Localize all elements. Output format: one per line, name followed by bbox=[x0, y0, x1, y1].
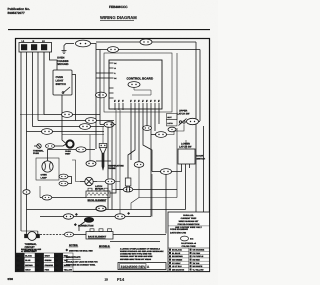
wire K1 K2 right bbox=[68, 177, 72, 184]
svg-text:PARALLEL: PARALLEL bbox=[183, 214, 194, 217]
wire run J8 bbox=[33, 126, 105, 128]
color code table left bbox=[16, 253, 74, 272]
label resistance note bbox=[21, 248, 42, 253]
svg-text:PK PINK: PK PINK bbox=[193, 252, 201, 255]
svg-text:A LISTING OF REPLACEMENT OF TE: A LISTING OF REPLACEMENT OF TERMINALS bbox=[120, 247, 161, 250]
wire lower cross bbox=[139, 197, 177, 199]
title WIRING DIAGRAM bbox=[100, 15, 137, 20]
wire right riser R1 bbox=[195, 42, 197, 212]
connector oval M1 bbox=[64, 214, 74, 219]
wire into pin P3 bbox=[96, 72, 109, 74]
wire J9 run bbox=[100, 124, 116, 126]
svg-text:BROIL ELEMENT: BROIL ELEMENT bbox=[88, 199, 107, 202]
svg-text:WIRE DIAGRAM SET: WIRE DIAGRAM SET bbox=[179, 220, 200, 223]
wire K4 left link bbox=[112, 189, 123, 191]
model number text bbox=[109, 5, 128, 9]
wire latch motor right bbox=[97, 181, 105, 183]
svg-text:5995372077: 5995372077 bbox=[8, 11, 25, 15]
svg-text:IMPORTANT:: IMPORTANT: bbox=[66, 256, 81, 259]
connector oval J9 bbox=[104, 122, 114, 128]
label upper latch switch bbox=[177, 110, 190, 116]
connector oval C1 bbox=[86, 161, 96, 167]
svg-text:DENOTES ON MOD. REF.: DENOTES ON MOD. REF. bbox=[69, 250, 93, 253]
wire motor oval right bbox=[115, 181, 120, 183]
wire block to light switch bbox=[50, 52, 58, 70]
svg-text:THERMAL: THERMAL bbox=[33, 150, 44, 153]
thermal circuit breaker CB1 bbox=[21, 231, 40, 240]
oven light switch S1 bbox=[53, 70, 72, 95]
svg-text:DATE 5/98 CHG: DATE 5/98 CHG bbox=[170, 232, 186, 235]
wire pin1 down bbox=[130, 110, 132, 160]
label temperature probe bbox=[108, 165, 124, 171]
svg-text:WHERE STANDARD AND REPLACED NE: WHERE STANDARD AND REPLACED NECESSARY. bbox=[120, 250, 164, 253]
svg-text:GRAY: GRAY bbox=[25, 269, 31, 272]
part number box bbox=[118, 263, 166, 270]
wire riser x100 bbox=[99, 50, 101, 125]
svg-text:PINK: PINK bbox=[45, 269, 50, 272]
svg-text:5/98: 5/98 bbox=[8, 277, 14, 281]
svg-text:RD RED: RD RED bbox=[193, 259, 201, 262]
oven lamp L1 bbox=[42, 150, 53, 173]
svg-text:PU PURPLE: PU PURPLE bbox=[193, 255, 205, 258]
connector oval K2 bbox=[59, 181, 68, 186]
svg-text:CONNECTION: CONNECTION bbox=[78, 225, 94, 228]
connector oval K6 bbox=[143, 126, 152, 131]
title block bbox=[168, 212, 210, 272]
upper latch switch S2 bbox=[167, 114, 187, 126]
svg-text:GY GRAY: GY GRAY bbox=[172, 262, 181, 265]
svg-text:BL BLUE: BL BLUE bbox=[172, 252, 181, 255]
label thermal circuit breaker bbox=[25, 243, 38, 252]
svg-text:SERVICING BE CORRECT WIRE.: SERVICING BE CORRECT WIRE. bbox=[66, 263, 96, 266]
node diamond legend bbox=[65, 249, 68, 252]
svg-text:VENT: VENT bbox=[65, 152, 71, 155]
connector oval J7 bbox=[86, 118, 97, 124]
svg-text:LATCH: LATCH bbox=[167, 122, 173, 125]
wire CB to S2 box bbox=[176, 53, 178, 120]
wire bake right bbox=[113, 234, 166, 236]
connector oval K8 bbox=[42, 195, 52, 200]
wire pin3 down bbox=[138, 110, 140, 162]
svg-text:LATCH SW: LATCH SW bbox=[179, 146, 192, 149]
svg-text:10: 10 bbox=[105, 278, 109, 282]
wire mid run b bbox=[62, 134, 104, 136]
svg-text:BK BLACK: BK BLACK bbox=[172, 249, 183, 252]
svg-text:BR BROWN: BR BROWN bbox=[172, 255, 183, 258]
wire riser center a bbox=[107, 127, 109, 210]
connector oval M3 (dark) bbox=[84, 217, 93, 222]
wire pin5 to K6 bbox=[146, 110, 148, 126]
connector oval A bbox=[140, 39, 152, 45]
label door switch bbox=[197, 155, 206, 161]
svg-text:LATCH SW: LATCH SW bbox=[177, 113, 190, 116]
wire S2 lower riser bbox=[176, 128, 178, 198]
publication number text bbox=[8, 7, 31, 15]
svg-text:FOR RE-CONNECTION: FOR RE-CONNECTION bbox=[178, 223, 200, 226]
wire light switch right bbox=[72, 75, 76, 121]
board sub box bbox=[132, 87, 151, 95]
wire pin4 lower bbox=[151, 174, 153, 217]
connector oval K7 bbox=[161, 169, 172, 175]
svg-text:YELLOW: YELLOW bbox=[64, 269, 72, 272]
svg-text:F14: F14 bbox=[117, 277, 125, 282]
connector oval K4 bbox=[123, 187, 133, 192]
svg-text:AT ROOM TEMP.: AT ROOM TEMP. bbox=[21, 250, 36, 253]
svg-text:LB LT BLU: LB LT BLU bbox=[172, 265, 182, 268]
wire run J6 bbox=[20, 52, 44, 115]
svg-text:YL YELLOW: YL YELLOW bbox=[193, 268, 204, 271]
label oven chassis ground bbox=[57, 57, 69, 67]
wire run J7 bbox=[38, 120, 114, 122]
wire R2 to S2 bbox=[199, 121, 200, 123]
svg-text:SWITCH: SWITCH bbox=[197, 157, 206, 160]
broil element R1 bbox=[86, 188, 110, 197]
wire riser center d bbox=[119, 110, 121, 214]
connector oval J6 bbox=[62, 112, 73, 118]
wire pin3 continue bbox=[131, 167, 139, 209]
title block oval bbox=[181, 236, 189, 241]
wire run J10 bbox=[27, 131, 105, 133]
plug connector P7 bbox=[125, 178, 131, 192]
svg-text:DOOR: DOOR bbox=[197, 155, 204, 158]
wire lamp to K1 bbox=[58, 176, 60, 178]
svg-text:GN GREEN: GN GREEN bbox=[172, 259, 183, 262]
connector oval L1 (bold) bbox=[96, 206, 106, 211]
connector oval K3 bbox=[76, 147, 86, 152]
svg-text:MODELS:: MODELS: bbox=[99, 245, 110, 248]
label models body bbox=[120, 247, 164, 260]
header rule bbox=[8, 29, 210, 31]
terminal block TB1 bbox=[19, 40, 52, 52]
wire top run A bbox=[96, 41, 196, 43]
svg-text:HEAT: HEAT bbox=[167, 116, 171, 119]
wire run M bbox=[40, 216, 151, 218]
wire into pin P4 bbox=[96, 77, 109, 79]
wire pin8 down bbox=[158, 110, 160, 124]
wire lower run bbox=[110, 241, 160, 243]
svg-text:OR ORANGE: OR ORANGE bbox=[193, 249, 205, 252]
wire M3 tail bbox=[79, 222, 85, 232]
connector oval M2 bbox=[115, 214, 125, 219]
wire riser center b bbox=[111, 121, 113, 210]
label important heading bbox=[66, 256, 81, 259]
svg-text:CONTROL BOARD: CONTROL BOARD bbox=[127, 77, 154, 81]
wire run K3 bbox=[48, 149, 96, 151]
svg-text:OVEN: OVEN bbox=[41, 174, 48, 177]
svg-text:CODE 316245900: CODE 316245900 bbox=[170, 228, 189, 231]
label control board bbox=[127, 77, 154, 81]
svg-text:GRAY: GRAY bbox=[45, 255, 51, 258]
label oven lamp bbox=[41, 174, 48, 180]
node diamond b bbox=[127, 212, 130, 215]
connector oval on N riser bbox=[23, 190, 30, 195]
svg-text:NOTES:: NOTES: bbox=[69, 244, 78, 247]
label important body bbox=[66, 260, 98, 266]
label notes heading bbox=[69, 244, 78, 247]
connector oval K5 bbox=[156, 132, 167, 138]
label models heading bbox=[99, 245, 110, 248]
wire pin2 down bbox=[128, 110, 135, 178]
board bottom pin labels bbox=[114, 100, 159, 103]
svg-text:FUSE: FUSE bbox=[33, 152, 39, 155]
label grommet bbox=[65, 150, 71, 156]
board bottom pins bbox=[115, 103, 159, 110]
svg-text:SECURED AWAY FROM HOT AREAS: SECURED AWAY FROM HOT AREAS bbox=[120, 258, 152, 261]
svg-text:ORANGE: ORANGE bbox=[45, 264, 54, 267]
svg-text:SHOULD ANY LEAD BE OVER FOR: SHOULD ANY LEAD BE OVER FOR bbox=[66, 260, 98, 263]
svg-text:TN TAN: TN TAN bbox=[193, 262, 200, 265]
svg-text:WIRING DIAGRAM: WIRING DIAGRAM bbox=[100, 15, 137, 20]
connector oval S2R bbox=[187, 118, 199, 124]
svg-text:BLACK: BLACK bbox=[25, 255, 32, 258]
bake element R2 bbox=[86, 229, 113, 239]
wire N1 to bake bbox=[74, 234, 86, 236]
node diamond c bbox=[74, 223, 77, 226]
connector oval K1 bbox=[59, 174, 68, 179]
label lower latch switch bbox=[179, 143, 192, 149]
svg-text:CALIFORNIA +4: CALIFORNIA +4 bbox=[181, 242, 197, 245]
wire probe drop bbox=[89, 135, 91, 161]
svg-text:BROWN: BROWN bbox=[25, 264, 33, 267]
wire right riser R2 bbox=[199, 50, 201, 122]
connector oval N1 bbox=[64, 232, 73, 237]
thermal fuse symbol bbox=[34, 144, 41, 148]
connector oval GN1 bbox=[76, 40, 91, 47]
wire K5 run bbox=[151, 134, 156, 136]
connector oval J8 bbox=[80, 124, 91, 130]
wire riser center c bbox=[115, 110, 117, 190]
wire K7 left bbox=[152, 171, 161, 173]
svg-text:MR MAROON: MR MAROON bbox=[172, 268, 185, 271]
svg-text:GROUND: GROUND bbox=[57, 63, 69, 66]
control board U1 bbox=[109, 60, 162, 109]
junction grommet bbox=[66, 140, 73, 147]
connector oval on board edge bbox=[96, 92, 107, 98]
svg-text:FEB386CCC: FEB386CCC bbox=[109, 5, 128, 9]
connector oval on pin3 bbox=[134, 162, 144, 168]
oven lamp box bbox=[36, 158, 59, 180]
connector oval B bbox=[108, 47, 119, 53]
svg-text:BAKE ELEMENT: BAKE ELEMENT bbox=[88, 236, 107, 239]
title block color table bbox=[168, 248, 210, 272]
latch motor M1 bbox=[80, 177, 97, 185]
label diamond legend bbox=[69, 250, 93, 253]
svg-text:LAMP: LAMP bbox=[41, 176, 48, 179]
connector oval at motor bbox=[105, 179, 115, 184]
wire run K8 bbox=[40, 197, 86, 199]
wire latch motor left bbox=[72, 160, 80, 182]
svg-text:SWITCH: SWITCH bbox=[56, 83, 66, 86]
wire N down bbox=[26, 52, 28, 232]
wire S3 feed bbox=[185, 140, 187, 149]
control board outer box bbox=[104, 53, 172, 112]
wire pin6 down bbox=[154, 110, 156, 131]
diagram border frame bbox=[16, 39, 210, 272]
connector oval at fuse bbox=[46, 144, 55, 149]
wire riser center e bbox=[102, 127, 104, 144]
wire top run B bbox=[96, 49, 200, 51]
svg-text:GREEN: GREEN bbox=[45, 259, 52, 262]
label connection note bbox=[78, 225, 94, 228]
wire L1 down bbox=[20, 52, 22, 231]
svg-text:CONNECTED WITH TYPE, WIRE THE: CONNECTED WITH TYPE, WIRE THE bbox=[120, 253, 152, 256]
wire long run L bbox=[27, 209, 186, 211]
board left pins P1-P4 bbox=[109, 62, 117, 80]
svg-text:316245900 REV. A: 316245900 REV. A bbox=[121, 265, 150, 269]
wire to oval J8 bbox=[32, 52, 34, 127]
wire GN1 to right riser bbox=[91, 44, 97, 150]
lower latch switch S3 bbox=[178, 149, 195, 170]
wire S2 to riser R3 bbox=[203, 126, 205, 212]
label broil element bbox=[88, 199, 107, 202]
svg-text:CURRENT PREP: CURRENT PREP bbox=[181, 217, 197, 220]
connector oval S2B bbox=[168, 127, 176, 132]
oven chassis ground symbol bbox=[62, 44, 75, 54]
svg-text:ORIGINAL MUST BE USED AND WIRE: ORIGINAL MUST BE USED AND WIRE bbox=[120, 255, 153, 258]
label latch motor bbox=[95, 185, 104, 191]
svg-text:WH WHITE: WH WHITE bbox=[193, 265, 204, 268]
board pin tick band bbox=[115, 100, 159, 102]
connector oval J10 bbox=[42, 129, 53, 135]
wire broil to K4 bbox=[110, 190, 123, 194]
wire K4 to riser bbox=[133, 189, 177, 191]
footer page numbers bbox=[105, 277, 125, 282]
svg-text:LATCH: LATCH bbox=[95, 185, 103, 188]
temperature probe RTD1 bbox=[96, 144, 111, 171]
wire S3 pin to K7 bbox=[172, 170, 182, 172]
svg-text:OVEN: OVEN bbox=[65, 150, 71, 153]
footer date bbox=[8, 277, 14, 281]
wire light switch bottom bbox=[62, 95, 66, 144]
wire pin7 down bbox=[150, 110, 152, 217]
svg-text:BLUE: BLUE bbox=[25, 259, 31, 262]
connector oval on board bbox=[128, 82, 140, 88]
wire S3 pin down bbox=[185, 170, 187, 210]
wire to oval J7 bbox=[37, 52, 39, 121]
label bake element bbox=[88, 236, 107, 239]
wire to oval J6 bbox=[43, 52, 45, 115]
node diamond a bbox=[75, 213, 78, 216]
wire pin4 down bbox=[143, 110, 152, 172]
wire K7 riser down bbox=[165, 174, 167, 233]
board left pins P5-P6 bbox=[109, 88, 114, 98]
label thermal fuse bbox=[33, 150, 44, 156]
wire fuse to junction bbox=[55, 144, 67, 146]
wire breaker dashed run bbox=[40, 234, 64, 236]
